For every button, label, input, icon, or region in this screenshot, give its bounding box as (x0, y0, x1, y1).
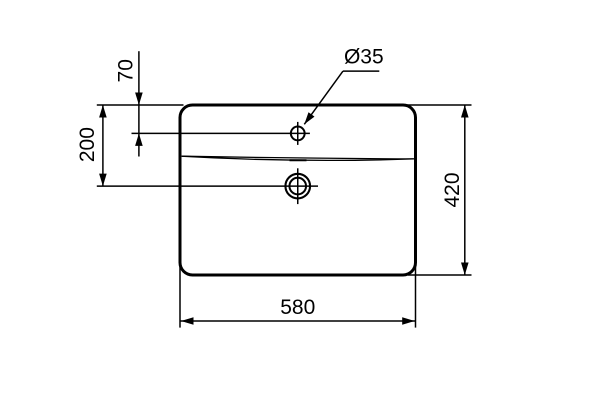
200 dimension line (102, 105, 104, 186)
svg-text:200: 200 (76, 127, 99, 162)
svg-text:70: 70 (114, 59, 137, 82)
580 dimension line (180, 320, 416, 322)
420 top extension line (406, 104, 472, 106)
drain outer circle (285, 174, 310, 199)
drain vertical centerline (297, 168, 299, 204)
420 dimension line (464, 105, 466, 275)
svg-text:Ø35: Ø35 (344, 46, 384, 69)
drain horizontal centerline (200 extension) (97, 185, 318, 187)
basin outline (180, 105, 416, 275)
faucet hole horizontal centerline (70 extension) (132, 132, 310, 134)
diameter leader diagonal (304, 71, 343, 124)
200 arrow down (99, 174, 107, 187)
diameter leader underline (343, 70, 379, 72)
420 bottom extension line (408, 274, 472, 276)
580 arrow right (402, 317, 415, 325)
diameter leader arrowhead (304, 112, 314, 124)
580 left extension line (179, 262, 181, 328)
420 arrow up (461, 105, 469, 118)
200 arrow up (99, 105, 107, 118)
70 arrow down (135, 93, 143, 106)
basin inner rim upper curve (182, 156, 414, 159)
420 arrow down (461, 263, 469, 276)
70 dimension line (138, 51, 140, 156)
drain inner circle (289, 178, 306, 195)
faucet hole circle (291, 126, 305, 140)
70 arrow up (135, 133, 143, 146)
svg-text:420: 420 (441, 172, 464, 207)
top-left extension line (97, 104, 184, 106)
basin inner rim lower curve (182, 156, 414, 160)
svg-text:580: 580 (280, 296, 315, 319)
faucet hole vertical centerline (297, 122, 299, 145)
580 right extension line (415, 262, 417, 328)
overflow slot dash (290, 159, 307, 161)
580 arrow left (181, 317, 194, 325)
